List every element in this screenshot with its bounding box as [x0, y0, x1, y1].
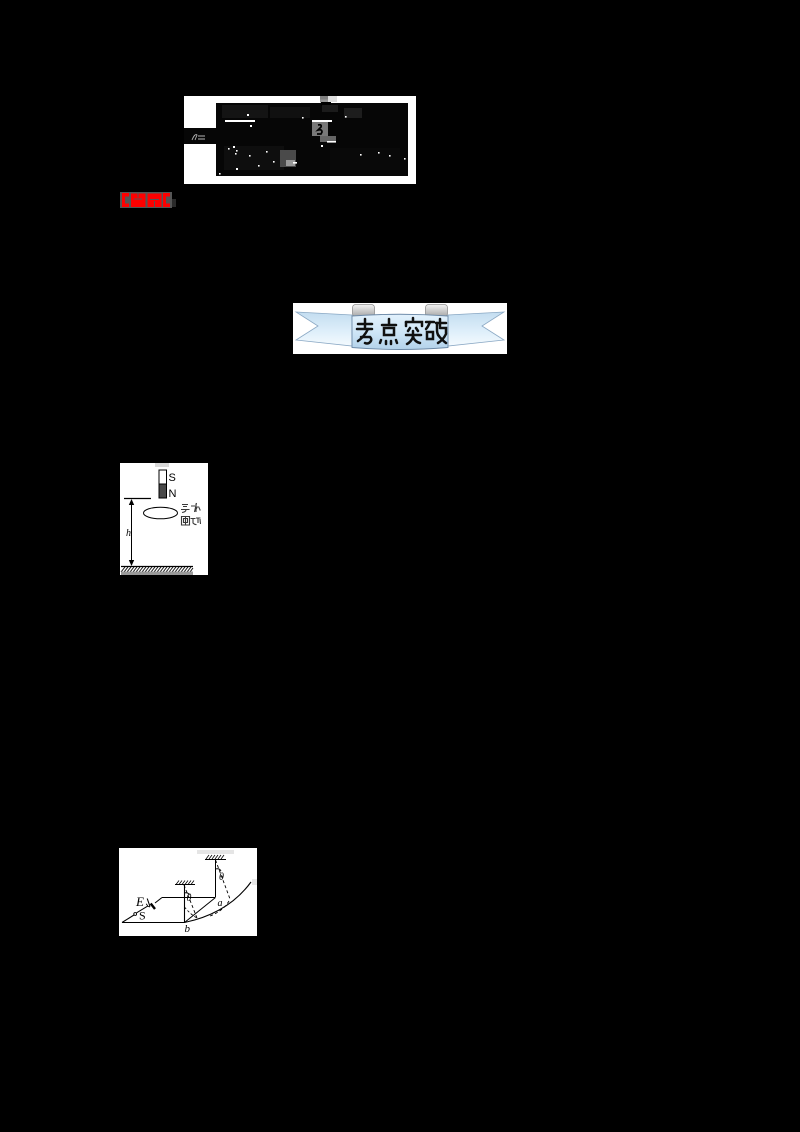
svg-text:b: b — [185, 923, 191, 935]
svg-text:S: S — [169, 472, 176, 484]
svg-text:a: a — [218, 898, 223, 909]
svg-text:S: S — [139, 909, 146, 923]
svg-text:h: h — [126, 528, 131, 539]
svg-text:E: E — [135, 894, 144, 909]
svg-text:N: N — [169, 488, 177, 500]
